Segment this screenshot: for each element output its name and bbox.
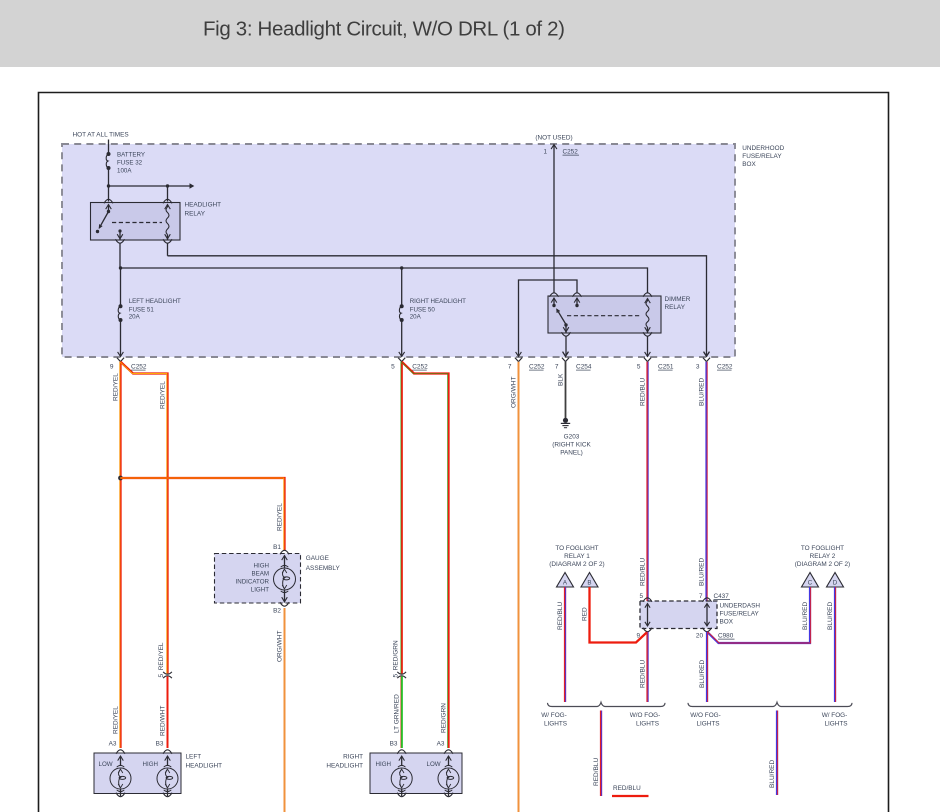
pin B2 gauge assembly: [273, 602, 289, 614]
svg-text:RED/BLU: RED/BLU: [613, 785, 641, 792]
triangle connector C: [802, 573, 819, 588]
bus wire from relay switch to dimmer relay coil: [120, 268, 648, 293]
svg-text:LIGHT: LIGHT: [251, 586, 269, 593]
dimmer relay coil: [643, 293, 652, 333]
wire from C252 pin 1 to dimmer relay: [553, 145, 555, 294]
wire RED/YEL main from exit 9 C252: [119, 362, 121, 748]
svg-text:(DIAGRAM 2 OF 2): (DIAGRAM 2 OF 2): [795, 561, 850, 568]
svg-text:BOX: BOX: [720, 619, 734, 626]
svg-text:C980: C980: [718, 633, 734, 640]
svg-text:LOW: LOW: [427, 761, 441, 768]
svg-text:UNDERHOOD: UNDERHOOD: [742, 145, 784, 152]
svg-text:20A: 20A: [410, 314, 422, 321]
left headlight box: [94, 753, 222, 794]
wire bus to left headlight fuse: [120, 268, 122, 305]
svg-text:RELAY: RELAY: [665, 304, 686, 311]
svg-text:LEFT: LEFT: [186, 754, 202, 761]
wire right fuse to exit 5 C252: [401, 320, 403, 356]
label W/ FOG-LIGHTS right: [822, 712, 848, 728]
left headlight high beam lamp: [157, 750, 178, 797]
svg-text:RED/BLU: RED/BLU: [557, 602, 564, 630]
svg-text:C254: C254: [576, 364, 592, 371]
triangle connector D: [827, 573, 844, 588]
wire exit 7 C252 to dimmer relay pin: [519, 280, 578, 356]
svg-text:LIGHTS: LIGHTS: [696, 721, 719, 728]
wire BLU/RED from underdash pin 20 to triangle C: [707, 587, 810, 643]
exit 9 C252: [118, 352, 124, 357]
svg-text:A3: A3: [109, 740, 117, 747]
svg-text:INDICATOR: INDICATOR: [236, 578, 270, 585]
wire RED/BLU below underdash pin 9: [646, 632, 648, 702]
inline connector on right branch: [397, 672, 406, 674]
svg-text:20A: 20A: [129, 314, 141, 321]
svg-text:RED/WHT: RED/WHT: [159, 706, 166, 736]
svg-text:RELAY 1: RELAY 1: [564, 553, 590, 560]
wire RED/BLU from exit 5 C251 to underdash box: [646, 362, 648, 601]
svg-text:D: D: [833, 579, 838, 586]
exit 7 C252: [516, 352, 522, 357]
svg-text:W/O FOG-: W/O FOG-: [630, 712, 661, 719]
junction node below battery fuse: [107, 184, 110, 187]
svg-text:C252: C252: [131, 364, 147, 371]
brace left (foglight option merge): [548, 702, 666, 706]
svg-text:C437: C437: [714, 593, 730, 600]
svg-text:HOT AT ALL TIMES: HOT AT ALL TIMES: [73, 132, 129, 139]
svg-text:9: 9: [636, 633, 640, 640]
ground G203: [552, 418, 591, 457]
svg-text:W/ FOG-: W/ FOG-: [541, 712, 567, 719]
wire ORG/WHT from exit 7 C252 down: [518, 362, 520, 812]
junction node left headlight fuse: [119, 266, 122, 269]
wire left fuse to exit 9 C252: [120, 320, 122, 356]
wire BLU/RED from exit 3 C252 to underdash box: [705, 362, 707, 601]
svg-text:FUSE/RELAY: FUSE/RELAY: [742, 153, 782, 160]
svg-text:7: 7: [508, 364, 512, 371]
svg-text:C252: C252: [412, 364, 428, 371]
svg-text:PANEL): PANEL): [560, 450, 583, 457]
wire BLU/RED output of right brace: [776, 711, 778, 796]
right headlight low beam lamp: [438, 750, 459, 797]
left headlight low beam lamp: [110, 750, 131, 797]
svg-text:ORG/WHT: ORG/WHT: [510, 377, 517, 408]
wire bus to right headlight fuse: [401, 268, 403, 305]
svg-text:5: 5: [391, 364, 395, 371]
junction node RED/YEL: [118, 476, 123, 481]
dimmer relay mechanical link (dashed): [567, 315, 641, 317]
headlight relay U1: [91, 202, 222, 240]
battery fuse 32 (FUSE 32 100A): [106, 152, 145, 175]
svg-text:BLU/RED: BLU/RED: [769, 760, 776, 788]
bus wire from relay coil to dimmer exit C252 pin 3: [168, 256, 707, 356]
svg-text:RED/BLU: RED/BLU: [593, 758, 600, 786]
exit 3 C252: [704, 352, 710, 357]
wire RED/GRN branch to A3 right headlight: [402, 362, 449, 748]
svg-text:LIGHTS: LIGHTS: [824, 721, 847, 728]
svg-text:BLU/RED: BLU/RED: [698, 558, 705, 586]
inline connector on left branch: [163, 672, 172, 674]
svg-text:LEFT HEADLIGHT: LEFT HEADLIGHT: [129, 298, 181, 305]
arrowhead at exit 3 C252: [704, 352, 710, 357]
svg-text:7: 7: [699, 593, 703, 600]
svg-text:RED/YEL: RED/YEL: [159, 381, 166, 409]
svg-text:RED: RED: [581, 607, 588, 621]
svg-text:RED/BLU: RED/BLU: [639, 660, 646, 688]
wire battery fuse to junction: [108, 168, 110, 186]
wire BLK from exit 7 C254 to ground: [565, 362, 567, 419]
wire RED/YEL branch to inline connector: [121, 362, 168, 674]
svg-text:BLU/RED: BLU/RED: [699, 660, 706, 688]
triangle connector A: [557, 573, 574, 588]
svg-text:LT GRN/RED: LT GRN/RED: [394, 694, 401, 733]
svg-text:RED/BLU: RED/BLU: [639, 558, 646, 586]
svg-text:20: 20: [696, 633, 704, 640]
svg-text:BLU/RED: BLU/RED: [827, 602, 834, 630]
underhood fuse/relay box: [62, 144, 735, 357]
wire ORG/WHT from B2 down: [284, 608, 286, 812]
svg-text:GAUGE: GAUGE: [306, 555, 329, 562]
svg-text:BATTERY: BATTERY: [117, 152, 145, 159]
svg-text:RED/YEL: RED/YEL: [276, 503, 283, 531]
wire relay coil output down: [163, 239, 172, 256]
junction node right headlight fuse: [400, 266, 403, 269]
dimmer relay switch output pin: [562, 325, 571, 336]
right headlight fuse 50 (FUSE 50 20A): [399, 298, 466, 322]
svg-text:9: 9: [110, 364, 114, 371]
wire dimmer coil to exit 5 C251: [647, 336, 649, 355]
svg-text:Fig 3: Headlight Circuit, W/O: Fig 3: Headlight Circuit, W/O DRL (1 of …: [203, 18, 565, 41]
brace right (foglight option merge): [688, 702, 852, 706]
label RED/BLU continuation at page bottom: [613, 785, 641, 792]
svg-text:BLU/RED: BLU/RED: [698, 378, 705, 406]
svg-text:100A: 100A: [117, 168, 132, 175]
svg-text:HIGH: HIGH: [254, 562, 269, 569]
exit 5 C252: [399, 352, 405, 357]
headlight relay switch contacts and blade: [96, 199, 113, 233]
wire RED/WHT to B3 left headlight: [167, 676, 169, 748]
svg-text:3: 3: [696, 364, 700, 371]
wire junction to coil branch with arrow: [109, 183, 195, 189]
svg-text:A3: A3: [437, 740, 445, 747]
svg-text:RIGHT: RIGHT: [343, 754, 363, 761]
chevron below dimmer coil: [643, 332, 652, 336]
svg-text:5: 5: [639, 593, 643, 600]
wire RED from triangle B to underdash pin 9: [590, 587, 648, 643]
headlight relay switch output contact: [117, 229, 123, 239]
svg-text:B3: B3: [390, 740, 398, 747]
underdash internal wire pin 5 to 9: [645, 604, 650, 627]
pin number 1 and C252 at top exit: [543, 149, 579, 156]
svg-text:C252: C252: [717, 364, 733, 371]
label TO FOGLIGHT RELAY 2 (DIAGRAM 2 OF 2): [795, 545, 850, 568]
underdash box pin 9: [636, 628, 652, 640]
wire RED/BLU output of left brace: [600, 711, 602, 797]
right headlight box: [326, 753, 462, 794]
triangle connector B: [581, 573, 598, 588]
svg-text:5 RED/GRN: 5 RED/GRN: [392, 640, 399, 678]
junction node above relay coil: [166, 184, 169, 187]
svg-text:RELAY 2: RELAY 2: [810, 553, 836, 560]
svg-text:RED/YEL: RED/YEL: [112, 706, 119, 734]
svg-text:5: 5: [637, 364, 641, 371]
svg-text:HIGH: HIGH: [143, 761, 158, 768]
underdash box pin 5: [639, 593, 652, 602]
dimmer relay U2: [548, 296, 691, 333]
svg-text:7: 7: [555, 364, 559, 371]
label HIGH BEAM INDICATOR LIGHT: [236, 562, 270, 593]
underdash box pin 7 C437: [699, 593, 730, 602]
svg-text:HEADLIGHT: HEADLIGHT: [326, 763, 363, 770]
svg-text:FUSE 50: FUSE 50: [410, 306, 436, 313]
svg-text:(DIAGRAM 2 OF 2): (DIAGRAM 2 OF 2): [549, 561, 604, 568]
svg-text:LIGHTS: LIGHTS: [544, 721, 567, 728]
svg-text:LOW: LOW: [99, 761, 113, 768]
exit 7 C254: [563, 352, 569, 357]
svg-text:TO FOGLIGHT: TO FOGLIGHT: [801, 545, 844, 552]
svg-text:BLK: BLK: [557, 373, 564, 386]
label UNDERHOOD FUSE/RELAY BOX: [742, 145, 784, 168]
svg-text:HEADLIGHT: HEADLIGHT: [186, 763, 223, 770]
wire RED/YEL to high beam indicator B1: [121, 478, 285, 550]
svg-text:RELAY: RELAY: [185, 210, 206, 217]
svg-text:(RIGHT KICK: (RIGHT KICK: [552, 442, 591, 449]
label W/O FOG-LIGHTS right: [690, 712, 721, 728]
underdash fuse/relay box: [640, 601, 760, 629]
svg-text:C252: C252: [529, 364, 545, 371]
underdash internal wire pin 7 to 20: [704, 604, 709, 627]
svg-text:BEAM: BEAM: [251, 570, 269, 577]
arrowhead at exit 7 C254: [563, 352, 569, 357]
svg-text:1: 1: [543, 149, 547, 156]
left headlight fuse 51 (FUSE 51 20A): [118, 298, 181, 322]
wire from HOT AT ALL TIMES to battery fuse: [108, 140, 110, 154]
dimmer relay input contacts: [550, 293, 582, 307]
svg-text:HIGH: HIGH: [376, 761, 391, 768]
svg-text:RED/BLU: RED/BLU: [639, 378, 646, 406]
gauge assembly box: [215, 554, 341, 604]
svg-text:B1: B1: [273, 544, 281, 551]
svg-text:LIGHTS: LIGHTS: [636, 721, 659, 728]
svg-text:B: B: [587, 579, 591, 586]
wire RED/BLU continuation stub: [612, 795, 649, 797]
svg-text:B2: B2: [273, 608, 281, 615]
svg-text:RED/GRN: RED/GRN: [440, 703, 447, 733]
svg-text:C252: C252: [563, 149, 579, 156]
svg-text:W/ FOG-: W/ FOG-: [822, 712, 848, 719]
svg-text:ASSEMBLY: ASSEMBLY: [306, 565, 341, 572]
svg-text:C: C: [808, 579, 813, 586]
exit 5 C251: [645, 352, 651, 357]
arrow up at top exit pin 1 C252: [551, 145, 557, 150]
svg-text:HEADLIGHT: HEADLIGHT: [185, 202, 222, 209]
wire junction to headlight relay coil pin: [167, 186, 169, 202]
header bar: [0, 0, 940, 67]
svg-text:BOX: BOX: [742, 161, 756, 168]
label W/O FOG-LIGHTS left: [630, 712, 661, 728]
svg-text:FUSE 32: FUSE 32: [117, 160, 143, 167]
wire dimmer switch output to exit 7 C254: [565, 336, 567, 355]
wire RED/GRN main from exit 5 C252: [401, 362, 403, 674]
wire BLU/RED below underdash pin 20: [706, 632, 708, 702]
svg-text:BLU/RED: BLU/RED: [802, 602, 809, 630]
headlight relay mechanical link (dashed): [112, 222, 162, 224]
wire LT GRN/RED to B3 right headlight: [401, 676, 403, 748]
svg-text:(NOT USED): (NOT USED): [535, 135, 572, 142]
wire RED/BLU from triangle A down: [564, 587, 566, 702]
svg-text:FUSE/RELAY: FUSE/RELAY: [720, 611, 760, 618]
wire relay switch output to fuse bus: [116, 239, 125, 268]
svg-text:W/O FOG-: W/O FOG-: [690, 712, 721, 719]
svg-text:TO FOGLIGHT: TO FOGLIGHT: [555, 545, 598, 552]
svg-text:B3: B3: [156, 740, 164, 747]
svg-text:ORG/WHT: ORG/WHT: [276, 631, 283, 662]
wire junction to headlight relay pin 1: [108, 186, 110, 202]
label W/ FOG-LIGHTS left: [541, 712, 567, 728]
svg-text:C251: C251: [658, 364, 674, 371]
svg-text:UNDERDASH: UNDERDASH: [720, 603, 761, 610]
underdash box pin 20 C980: [696, 628, 735, 640]
wire BLU/RED from triangle D down: [834, 587, 836, 702]
svg-text:DIMMER: DIMMER: [665, 296, 691, 303]
svg-text:FUSE 51: FUSE 51: [129, 306, 155, 313]
headlight relay coil: [163, 199, 172, 239]
high beam indicator lamp: [274, 550, 296, 602]
svg-text:RED/YEL: RED/YEL: [112, 373, 119, 401]
svg-text:RIGHT HEADLIGHT: RIGHT HEADLIGHT: [410, 298, 466, 305]
dimmer relay switch blade: [557, 309, 568, 326]
right headlight high beam lamp: [391, 750, 412, 797]
label TO FOGLIGHT RELAY 1 (DIAGRAM 2 OF 2): [549, 545, 604, 568]
svg-text:G203: G203: [564, 434, 580, 441]
